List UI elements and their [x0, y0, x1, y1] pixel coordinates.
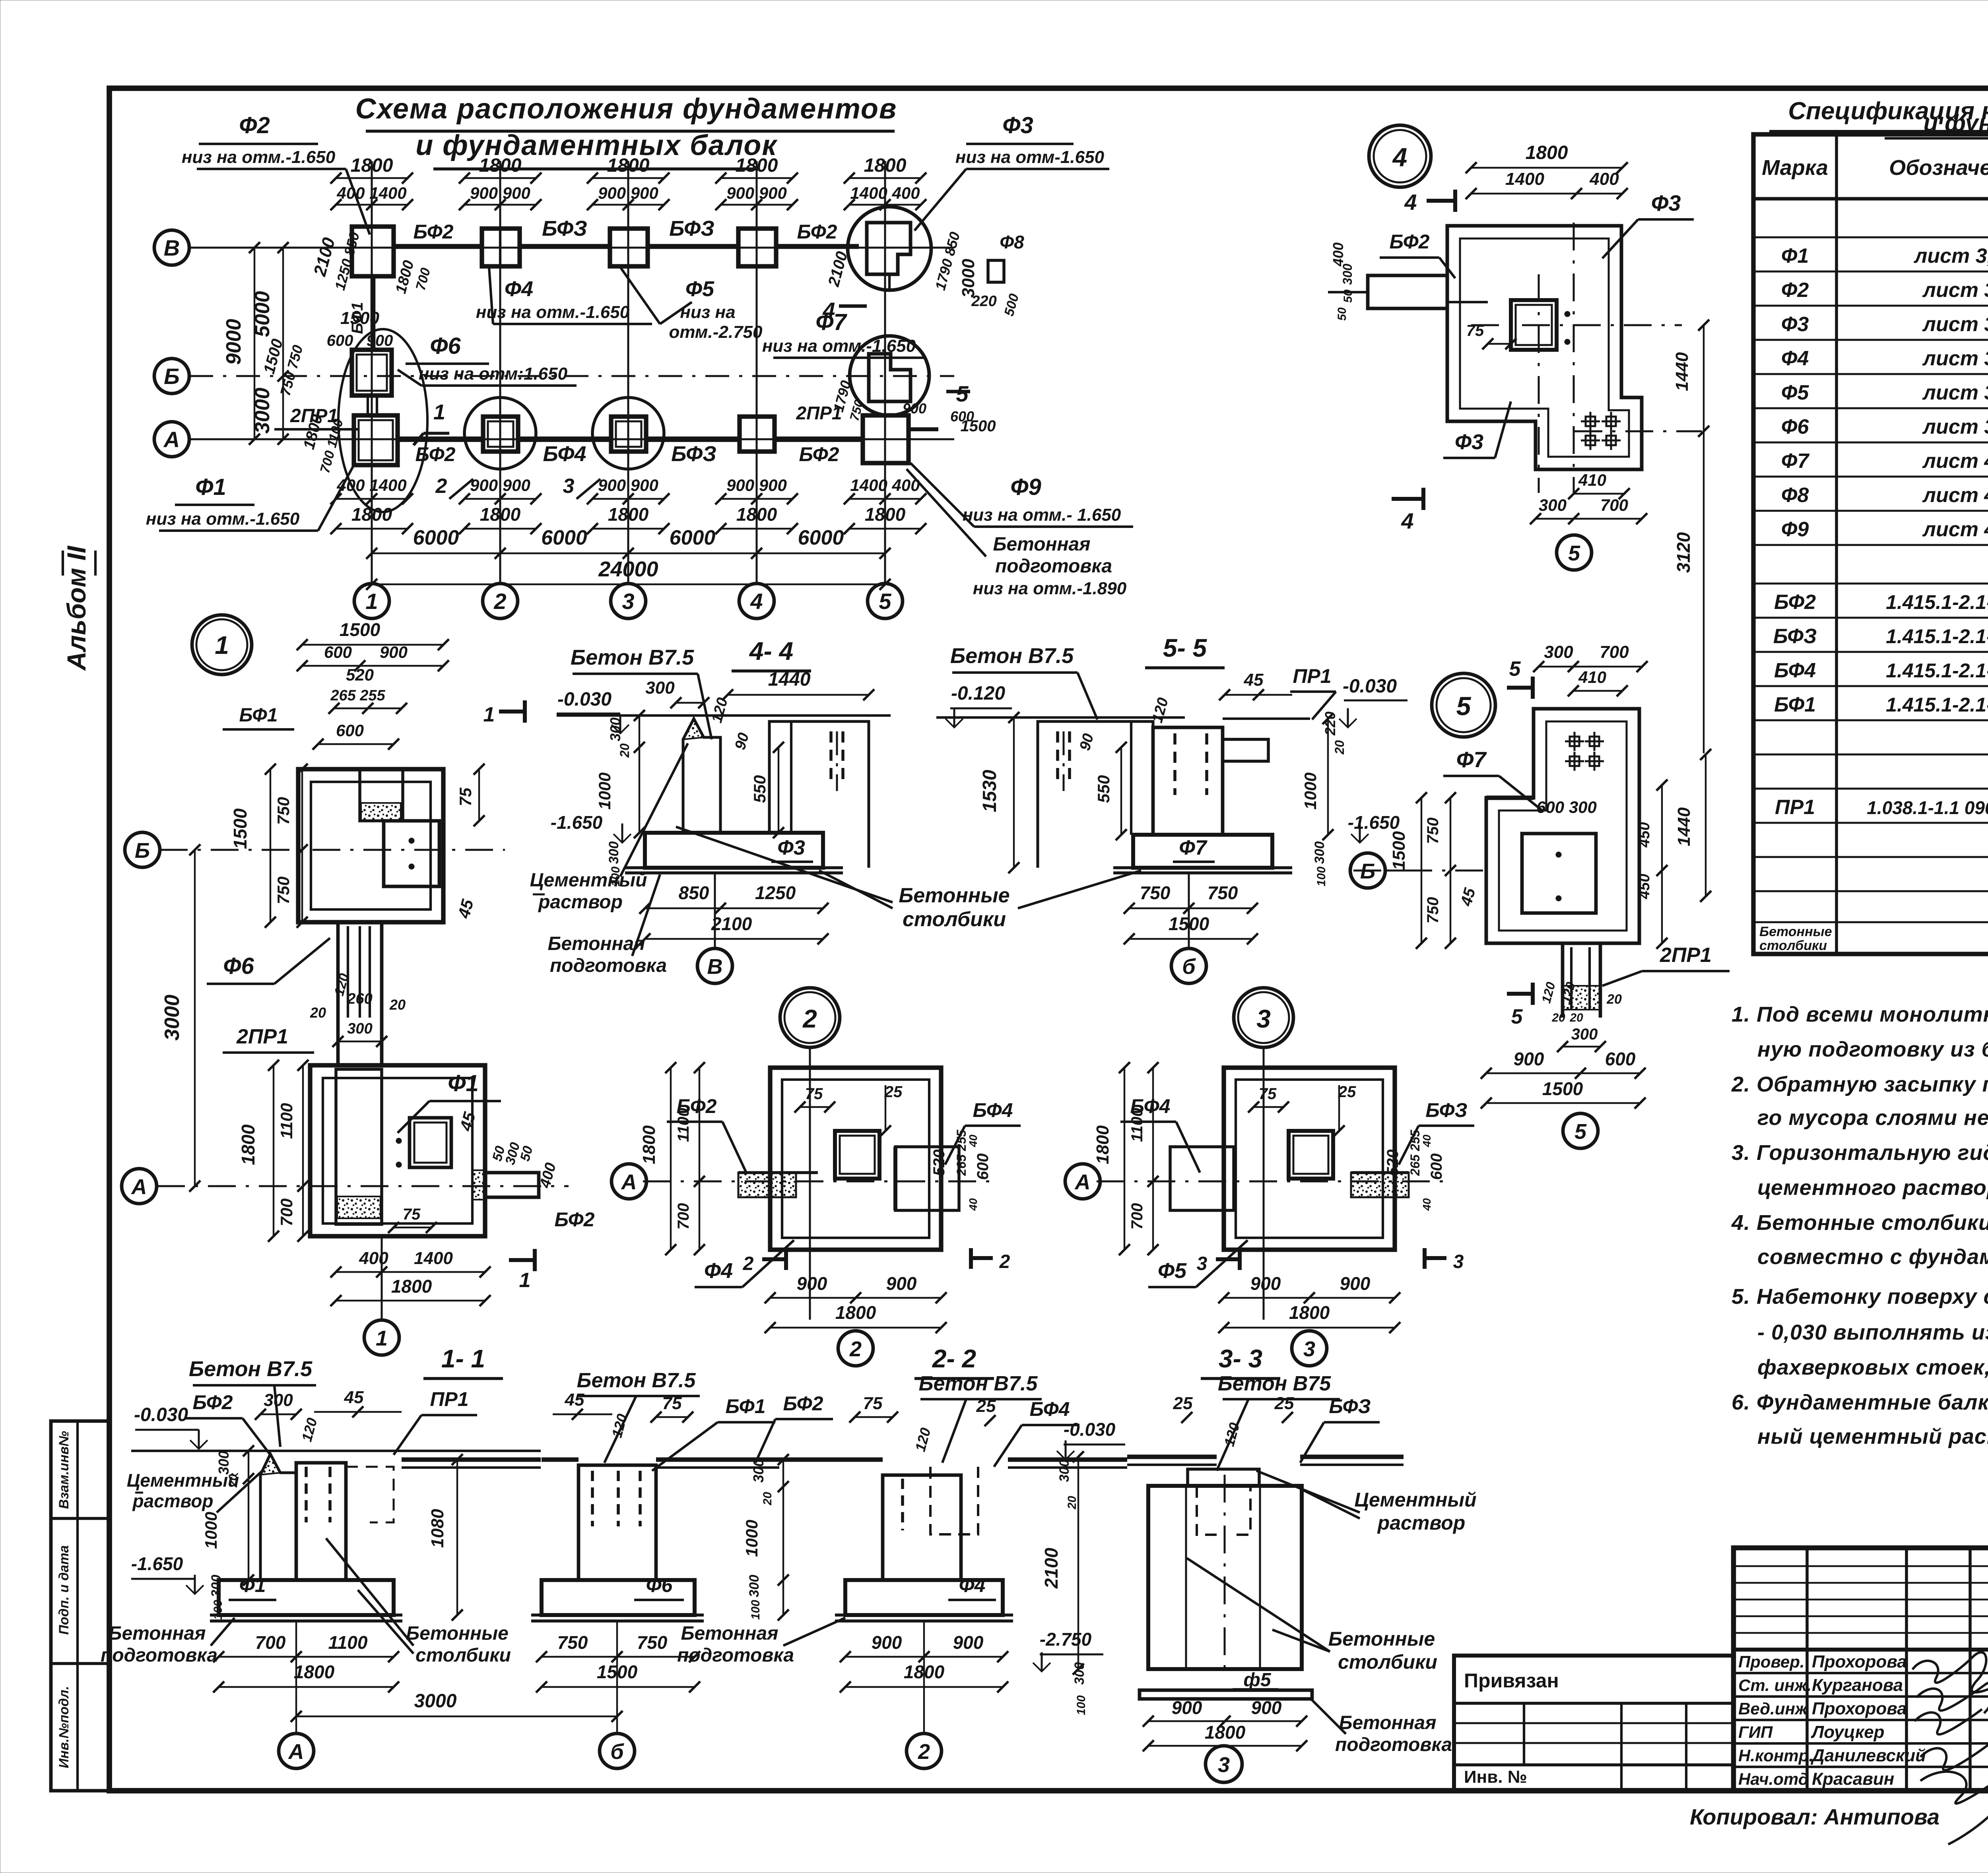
detail 5 bolts group [1565, 732, 1604, 771]
section 2-2 title [914, 1344, 994, 1379]
svg-text:6000: 6000 [670, 526, 716, 549]
svg-text:550: 550 [750, 775, 769, 803]
detail 5 axis Б line [1353, 870, 1491, 872]
svg-text:Ф9: Ф9 [1781, 518, 1809, 541]
svg-text:1800: 1800 [607, 155, 650, 176]
svg-text:300: 300 [1539, 496, 1567, 514]
svg-text:Прохорова: Прохорова [1812, 1699, 1907, 1718]
section 1-1 bottom dims Ф6 [536, 1632, 700, 1693]
svg-text:Схема расположения фундаментов: Схема расположения фундаментов [355, 93, 897, 125]
detail 5 section mark top [1507, 657, 1533, 699]
section 3-3 top labels [1173, 1394, 1380, 1463]
section 1-1 dims above Ф6 [553, 1369, 833, 1471]
svg-text:низ на отм:1.650: низ на отм:1.650 [419, 364, 568, 384]
svg-text:лист 4: лист 4 [1922, 518, 1988, 541]
dims below row А [330, 476, 926, 534]
svg-text:750: 750 [1140, 882, 1171, 903]
rotated dims near axis1 row В [310, 230, 433, 295]
section 1-1 dim 1080 middle [428, 1454, 463, 1621]
svg-text:БФ4: БФ4 [1030, 1398, 1070, 1420]
svg-text:отм.-2.750: отм.-2.750 [669, 322, 763, 342]
rotated dims near axis5 row В [825, 230, 1024, 318]
beam БФЗ row А axis3-4 [646, 439, 740, 466]
svg-text:-0.030: -0.030 [557, 689, 612, 710]
svg-text:1: 1 [215, 631, 229, 659]
detail 2 axis line А [643, 1181, 993, 1183]
svg-text:лист 3,4: лист 3,4 [1913, 244, 1988, 268]
svg-text:БФЗ: БФЗ [669, 217, 714, 240]
svg-text:Ф1: Ф1 [195, 474, 226, 500]
label бетонная подготовка 1-1 [101, 1618, 235, 1666]
axis row Б line [189, 375, 954, 377]
svg-text:БФ4: БФ4 [543, 442, 586, 466]
svg-text:45: 45 [565, 1390, 584, 1410]
svg-text:низ на отм.-1.890: низ на отм.-1.890 [973, 579, 1127, 598]
svg-text:Ф3: Ф3 [1651, 190, 1681, 215]
svg-text:БФЗ: БФЗ [542, 217, 587, 240]
svg-text:300: 300 [645, 678, 675, 698]
svg-text:1800: 1800 [391, 1276, 432, 1297]
svg-text:900 900: 900 900 [470, 476, 530, 494]
svg-text:Ф6: Ф6 [223, 953, 254, 979]
svg-text:лист 3: лист 3 [1922, 381, 1988, 404]
svg-text:БФ2: БФ2 [799, 443, 839, 465]
detail 1 bottom dims 400 1400 1800 [330, 1249, 491, 1306]
svg-text:Копировал: Антипова: Копировал: Антипова [1690, 1804, 1939, 1829]
svg-text:5: 5 [1456, 691, 1472, 721]
svg-text:столбики: столбики [415, 1645, 511, 1666]
svg-text:6000: 6000 [798, 526, 844, 549]
svg-text:Ф4: Ф4 [1781, 347, 1809, 370]
svg-text:900 900: 900 900 [726, 476, 787, 494]
svg-text:Ф6: Ф6 [646, 1574, 673, 1596]
label бетонные столбики 3-3 [1187, 1558, 1437, 1673]
svg-text:700: 700 [675, 1203, 692, 1230]
detail 2 plan outline [770, 1047, 941, 1320]
svg-text:1800: 1800 [639, 1125, 659, 1164]
axis circle Б right of 5-5 [1350, 853, 1415, 888]
svg-text:900: 900 [953, 1632, 984, 1653]
svg-text:Прохорова: Прохорова [1812, 1652, 1907, 1671]
detail 3 top dims 75 25 [1248, 1083, 1356, 1136]
rotated dims left of Ф1 row А [300, 413, 346, 475]
svg-text:Ф7: Ф7 [1781, 450, 1810, 473]
svg-text:600: 600 [336, 721, 364, 740]
svg-text:400 1400: 400 1400 [336, 476, 406, 494]
svg-text:40: 40 [967, 1134, 979, 1148]
svg-text:75: 75 [805, 1085, 823, 1103]
section 1-1 ground line [131, 1450, 541, 1452]
specification table grid [1753, 134, 1988, 954]
beam БФЗ row В axis3-4 [648, 217, 738, 246]
svg-text:БФ4: БФ4 [973, 1099, 1013, 1121]
svg-text:1400: 1400 [414, 1249, 453, 1268]
svg-text:100: 100 [749, 1600, 762, 1620]
detail 4 foundation Ф3 plan outline [1447, 226, 1642, 469]
span dims 6000 x4 and 24000 [366, 526, 891, 590]
svg-text:А: А [1074, 1170, 1091, 1194]
svg-text:6000: 6000 [413, 526, 459, 549]
svg-text:1500: 1500 [340, 308, 379, 328]
section 3-3 dim 2100 [1041, 1451, 1084, 1675]
plan vertical axis lines 1-5 [372, 161, 885, 584]
svg-text:45: 45 [344, 1388, 364, 1407]
section 5-5 labels and dims [979, 665, 1408, 944]
svg-text:2ПР1: 2ПР1 [236, 1025, 288, 1048]
svg-text:Ф4: Ф4 [505, 277, 533, 301]
detail 1 dims top [223, 619, 449, 750]
footer копировал line [1690, 1801, 1988, 1833]
svg-text:Бетон В7.5: Бетон В7.5 [571, 646, 694, 669]
detail 3 axis line А [1097, 1181, 1446, 1183]
section 1-1 dashed pit right [346, 1467, 394, 1522]
svg-text:В: В [707, 955, 723, 979]
svg-text:ную подготовку из бетона В3,5: ную подготовку из бетона В3,5 толщиной 1… [1757, 1037, 1988, 1061]
label бетонная подготовка 3-3 [1310, 1698, 1452, 1755]
detail 4 section mark top [1404, 190, 1455, 215]
attachment table Привязан [1454, 1656, 1734, 1791]
svg-text:фахверковых стоек, фундаментн: фахверковых стоек, фундаментных балок. [1757, 1355, 1988, 1379]
svg-text:550: 550 [1094, 775, 1113, 803]
svg-text:400 1400: 400 1400 [336, 184, 406, 202]
svg-text:3: 3 [563, 475, 575, 498]
section 3-3 bottom dims [1143, 1697, 1307, 1751]
svg-text:Цементный: Цементный [127, 1470, 239, 1491]
label Ф3 with leader [914, 112, 1109, 231]
svg-text:БФ2: БФ2 [414, 221, 454, 243]
svg-text:столбики: столбики [1759, 938, 1827, 953]
detail bubble 1 header [192, 615, 252, 675]
svg-text:450: 450 [1636, 822, 1653, 847]
svg-text:1500: 1500 [1542, 1078, 1583, 1099]
axis circle В [154, 230, 189, 265]
svg-text:4: 4 [1401, 508, 1413, 533]
svg-text:300: 300 [607, 717, 623, 741]
section 1-1 elevation -0.030 [134, 1404, 208, 1449]
detail 1 small dims bottom [388, 1141, 595, 1233]
detail 5 right dims 1440 450 450 [1636, 749, 1711, 949]
detail 1 section mark 1 bottom [509, 1249, 535, 1292]
detail 2 axis circle А [612, 1164, 646, 1199]
svg-text:лист 3: лист 3 [1922, 279, 1988, 302]
svg-text:низ на отм.-1.650: низ на отм.-1.650 [762, 336, 916, 356]
section 1-1 foundation Ф6 structure [531, 1465, 704, 1621]
detail 3 beam stubs [1170, 1147, 1409, 1210]
detail 2 beam labels [667, 1095, 1021, 1173]
specification table row бетонные столбики [1759, 924, 1988, 953]
svg-text:300: 300 [1544, 642, 1573, 662]
svg-text:100: 100 [1315, 867, 1328, 886]
svg-text:Привязан: Привязан [1464, 1669, 1559, 1692]
specification table title [1769, 97, 1988, 138]
foundation plan at axis 4 row В [738, 229, 776, 266]
svg-text:265 255: 265 255 [1408, 1129, 1422, 1176]
section 3-3 label бетон В7.5 [1217, 1372, 1340, 1471]
svg-text:БФ2: БФ2 [677, 1095, 717, 1117]
axis circle А [154, 422, 189, 457]
section 5-5 title [1145, 634, 1225, 668]
svg-text:Ф6: Ф6 [430, 333, 461, 359]
detail 5 label Ф7 [1443, 747, 1597, 816]
svg-text:20: 20 [1551, 1011, 1565, 1024]
section 1-1 label бетон В7.5 left [189, 1357, 316, 1447]
detail 3 bottom dims 900 900 1800 [1218, 1273, 1400, 1333]
detail 3 left dim chain 1800 1100 700 [1093, 1062, 1159, 1255]
svg-text:Бетонная: Бетонная [993, 534, 1091, 555]
detail 3 bottom axis circle [1292, 1331, 1327, 1366]
svg-text:1800: 1800 [736, 504, 777, 525]
svg-text:1530: 1530 [979, 770, 1000, 812]
specification table foundation rows [1781, 244, 1988, 541]
svg-text:600 300: 600 300 [1536, 798, 1597, 816]
section 4-4 label бетон В7.5 [571, 646, 712, 739]
svg-text:1080: 1080 [428, 1509, 447, 1548]
svg-text:3: 3 [1197, 1253, 1208, 1274]
section mark 4 on plan [822, 298, 867, 323]
svg-text:1000: 1000 [595, 772, 614, 809]
svg-text:-0.120: -0.120 [951, 683, 1005, 704]
channel 2ПР1 below Ф6 plan [368, 396, 377, 415]
detail 3 axis circle А [1065, 1164, 1100, 1199]
svg-text:1500: 1500 [230, 808, 250, 849]
svg-text:4. Бетонные столбики под фу: 4. Бетонные столбики под фундаментные ба… [1731, 1211, 1988, 1235]
detail 1 left dims 1800 1100 700 [238, 1060, 309, 1242]
detail 4 dims left rotated [1330, 242, 1516, 349]
svg-text:1800: 1800 [351, 155, 393, 176]
svg-text:Н.контр.: Н.контр. [1738, 1746, 1813, 1765]
left vertical document strip table [51, 1421, 109, 1791]
svg-text:5: 5 [1568, 541, 1580, 565]
title block signatures scribbles [1912, 1652, 1988, 1844]
svg-text:1800: 1800 [864, 155, 907, 176]
label Ф6 detail 1 [207, 938, 330, 984]
svg-text:265 255: 265 255 [330, 687, 385, 704]
foundation Ф9 plan at axis 5 row А [796, 403, 938, 463]
svg-text:700: 700 [1128, 1203, 1146, 1230]
svg-text:900 900: 900 900 [598, 184, 658, 202]
svg-text:подготовка: подготовка [101, 1645, 217, 1666]
svg-text:Цементный: Цементный [530, 870, 647, 891]
svg-text:1400 400: 1400 400 [850, 184, 920, 202]
svg-text:40: 40 [1421, 1134, 1433, 1148]
foundation Ф5 plan at axis 3 row В [610, 229, 648, 266]
svg-text:900: 900 [1250, 1273, 1281, 1294]
svg-text:А: А [131, 1175, 147, 1199]
svg-text:900: 900 [1172, 1697, 1202, 1718]
detail 5 bottom axis circle 5 [1563, 1113, 1598, 1148]
svg-text:ПР1: ПР1 [1775, 796, 1815, 819]
svg-text:3: 3 [1218, 1753, 1230, 1777]
svg-text:подготовка: подготовка [995, 556, 1112, 577]
svg-text:б: б [1182, 955, 1196, 979]
detail 1 foundation Ф1 plan outline [310, 1065, 485, 1236]
svg-text:5: 5 [956, 381, 969, 406]
title block main divider [1734, 1648, 1988, 1652]
svg-text:1500: 1500 [1389, 831, 1409, 870]
label Ф9 with leader [911, 463, 1133, 527]
svg-text:подготовка: подготовка [550, 955, 667, 976]
svg-text:Ф7: Ф7 [1179, 836, 1208, 859]
svg-text:300: 300 [1312, 841, 1327, 864]
beam БФ4 row А axis2-3 [518, 439, 611, 466]
svg-text:3000: 3000 [161, 995, 184, 1041]
svg-text:410: 410 [1578, 471, 1606, 489]
detail 2 beam stubs [738, 1147, 959, 1210]
detail 4 axes dash lines [1471, 223, 1702, 493]
section 2-2 depth dim chain [742, 1454, 789, 1621]
detail 3 plan outline [1224, 1047, 1395, 1320]
svg-text:1: 1 [483, 703, 495, 726]
svg-text:20: 20 [1606, 992, 1622, 1007]
specification table header texts [1762, 151, 1988, 193]
section 4-4 title [732, 637, 811, 671]
svg-text:520: 520 [1384, 1150, 1402, 1176]
svg-text:5: 5 [1574, 1120, 1587, 1144]
svg-text:75: 75 [1259, 1085, 1277, 1103]
svg-text:750: 750 [274, 797, 293, 825]
svg-text:лист 4: лист 4 [1922, 450, 1988, 473]
svg-text:4- 4: 4- 4 [749, 637, 793, 665]
label бетонная подготовка 2-2 [677, 1618, 845, 1666]
svg-text:600: 600 [974, 1154, 992, 1180]
section 1-1 left labels row [185, 1388, 477, 1455]
svg-text:Ф3: Ф3 [1455, 430, 1483, 454]
svg-text:5000: 5000 [251, 291, 274, 337]
svg-text:-1.650: -1.650 [1348, 812, 1400, 833]
section 3-3 axis circle 3 [1206, 1746, 1242, 1782]
svg-text:Бетонная: Бетонная [1339, 1712, 1437, 1733]
svg-text:БФ2: БФ2 [1774, 591, 1816, 614]
svg-text:5: 5 [1511, 1005, 1523, 1028]
svg-text:1800: 1800 [865, 504, 906, 525]
detail 4 bottom dims 410 300 700 [1530, 471, 1647, 524]
label бетонные столбики shared [676, 827, 1141, 931]
svg-text:4: 4 [1404, 190, 1417, 215]
detail bubble 4 header [1369, 125, 1431, 187]
detail 5 foundation Ф7 plan outline [1486, 709, 1639, 943]
detail 5 label 2ПР1 [1602, 944, 1730, 986]
detail 4 axis circle 5 [1557, 535, 1592, 570]
svg-text:300: 300 [1057, 1460, 1072, 1482]
svg-text:260: 260 [347, 991, 372, 1007]
svg-text:Лоуцкер: Лоуцкер [1811, 1722, 1885, 1742]
rotated dims near axis5 row Б [830, 379, 996, 435]
svg-text:9000: 9000 [222, 319, 245, 365]
detail 5 inner rect [1522, 834, 1596, 913]
svg-text:3- 3: 3- 3 [1219, 1344, 1262, 1373]
svg-text:900: 900 [380, 643, 408, 661]
svg-text:750: 750 [274, 876, 293, 904]
section 2-2 bottom dims [840, 1632, 1008, 1693]
label Ф4 in section 2-2 [948, 1574, 996, 1600]
svg-text:Бетон В7.5: Бетон В7.5 [577, 1369, 696, 1392]
title block upper revision rows [1734, 1548, 1988, 1650]
detail bubble 2 header [780, 988, 840, 1047]
svg-text:1: 1 [433, 400, 445, 424]
detail 3 foundation label Ф5 [1148, 1240, 1248, 1287]
svg-text:лист 4: лист 4 [1922, 484, 1988, 507]
svg-text:БФ1: БФ1 [726, 1395, 766, 1417]
svg-text:900: 900 [1514, 1049, 1544, 1069]
detail 4 column square [1511, 300, 1570, 350]
detail 4 bolts group [1581, 412, 1621, 450]
svg-text:1.038.1-1.1 090000-04: 1.038.1-1.1 090000-04 [1867, 797, 1988, 818]
svg-text:3. Горизонтальную гидроизоля: 3. Горизонтальную гидроизоляцию стен вып… [1732, 1141, 1988, 1165]
svg-text:25: 25 [1173, 1394, 1193, 1413]
svg-text:1.415.1-2.1-2-61: 1.415.1-2.1-2-61 [1886, 591, 1988, 613]
svg-text:1.415.1-2.1-2-49: 1.415.1-2.1-2-49 [1886, 625, 1988, 648]
svg-text:низ на отм.- 1.650: низ на отм.- 1.650 [963, 505, 1121, 525]
svg-text:300: 300 [264, 1390, 293, 1410]
svg-text:БФ4: БФ4 [1774, 659, 1816, 682]
detail 4 label Ф3 bottom [1443, 401, 1511, 458]
detail 5 section mark bottom [1507, 983, 1533, 1028]
svg-text:ПР1: ПР1 [1293, 665, 1331, 687]
section 4-4 drawing [557, 715, 891, 873]
svg-text:1500: 1500 [340, 619, 381, 640]
svg-text:3000: 3000 [414, 1691, 457, 1712]
svg-text:3: 3 [1303, 1337, 1315, 1361]
detail 4 label Ф3 top right [1602, 190, 1694, 258]
label Ф7 with leader [762, 309, 926, 358]
svg-text:БФЗ: БФЗ [1425, 1099, 1467, 1121]
svg-text:Б: Б [135, 839, 150, 863]
section 2-2 ground beams lines [779, 1460, 1127, 1468]
detail 4 dim 3120 right [1673, 431, 1704, 753]
svg-text:220: 220 [971, 293, 996, 310]
svg-text:300: 300 [747, 1575, 762, 1598]
svg-text:4: 4 [750, 589, 763, 614]
svg-text:- 0,030 выполнять из бетона: - 0,030 выполнять из бетона В 7,5 после … [1757, 1320, 1988, 1344]
svg-text:4: 4 [1392, 142, 1408, 172]
beam БФ2 row А axis1-2 [398, 439, 483, 465]
svg-text:Ф7: Ф7 [815, 309, 847, 335]
svg-text:450: 450 [1636, 874, 1653, 899]
svg-text:600: 600 [324, 643, 352, 661]
section 5-5 drawing [1038, 719, 1310, 873]
svg-text:600: 600 [1605, 1049, 1636, 1069]
beam БФ1 vertical axis1 [349, 277, 373, 349]
label Ф1 in section 1-1 [229, 1574, 276, 1600]
axis row А line [189, 438, 954, 440]
svg-text:2: 2 [999, 1251, 1010, 1272]
svg-text:цементного раствора состава 1:: цементного раствора состава 1:2 толщиной… [1757, 1176, 1988, 1200]
foundation Ф4 plan at axis 2 row А circled [464, 397, 536, 469]
svg-text:1800: 1800 [238, 1124, 258, 1165]
label Ф6 with leader [398, 333, 577, 386]
svg-text:Бетонные: Бетонные [1759, 924, 1832, 939]
svg-text:400: 400 [1589, 169, 1619, 189]
svg-text:1800: 1800 [1526, 142, 1568, 163]
svg-text:520: 520 [346, 665, 374, 684]
detail 1 beam stub БФ2 right [472, 1170, 539, 1200]
svg-text:20: 20 [761, 1492, 774, 1506]
beam БФЗ row В axis2-3 [520, 217, 610, 246]
section cut labels 2 and 3 on plan [435, 475, 600, 499]
svg-text:900 900: 900 900 [598, 476, 658, 494]
svg-text:Ф2: Ф2 [239, 112, 270, 138]
svg-text:Ф9: Ф9 [1010, 474, 1041, 500]
svg-text:-0.030: -0.030 [1064, 1419, 1116, 1440]
svg-text:А: А [621, 1170, 637, 1194]
svg-text:265 255: 265 255 [954, 1129, 969, 1176]
label цементный раствор 1-1 left [127, 1470, 262, 1512]
axis circle А detail 1 [122, 1169, 157, 1204]
svg-text:520: 520 [930, 1150, 948, 1176]
svg-text:1440: 1440 [768, 669, 811, 690]
svg-text:столбики: столбики [1338, 1651, 1437, 1673]
svg-text:Обозначение: Обозначение [1889, 156, 1988, 180]
